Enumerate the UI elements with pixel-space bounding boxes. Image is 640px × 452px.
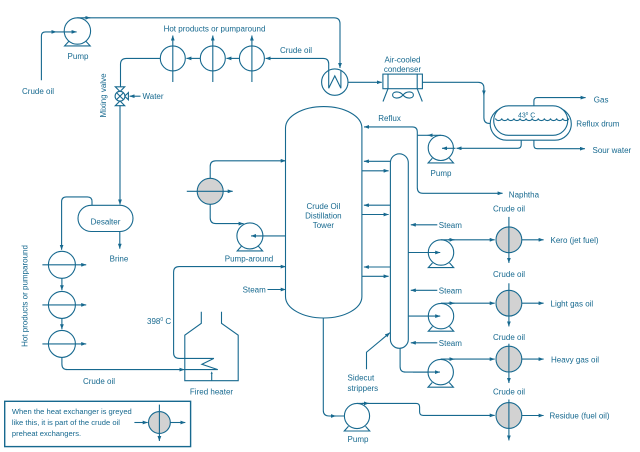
greyed crude preheat exchanger E11 (residue cooler) [496, 403, 522, 429]
wire: condenser outlet to reflux drum [422, 82, 491, 123]
wire: sour water outlet from drum [534, 140, 585, 149]
svg-text:Naphtha: Naphtha [509, 190, 540, 199]
svg-text:Pump-around: Pump-around [225, 254, 273, 263]
wire: crude through E11 [508, 400, 510, 441]
svg-text:Desalter: Desalter [91, 218, 121, 227]
wire: crude from E3 to E2 [226, 57, 239, 59]
wire: naphtha product line [417, 135, 502, 193]
svg-text:Pump: Pump [431, 169, 452, 178]
svg-text:Crude Oil: Crude Oil [307, 202, 341, 211]
legend greyed exchanger [149, 412, 171, 434]
wire: desalter outlet to lower exchanger train [62, 197, 92, 250]
svg-text:strippers: strippers [348, 384, 379, 393]
wire: heavy gas oil product [522, 358, 544, 360]
wire: crude E7 to fired heater [62, 357, 185, 369]
wire: reflux line label area / tower-stripper return 1 [364, 160, 391, 162]
wire: brine outlet [119, 232, 121, 249]
wire: heated crude 398C from heater to tower [174, 267, 286, 359]
svg-text:Steam: Steam [243, 285, 266, 294]
wire: tower bottoms to residue pump [323, 318, 354, 416]
pump P1 crude feed pump (top-left) [64, 18, 90, 46]
wire: reflux return to tower [364, 127, 417, 135]
wire: crude through E8 [508, 217, 510, 263]
wire: stripper bottoms to HGO pump P7 [400, 348, 440, 372]
svg-text:Crude oil: Crude oil [493, 333, 525, 342]
wire: hot products line through E5 [42, 264, 86, 266]
burner arrow [211, 373, 213, 381]
wire: reflux pump discharge to header [428, 134, 441, 136]
wire: LGO pump discharge to cooler [441, 302, 495, 304]
svg-text:Water: Water [143, 92, 164, 101]
heat exchanger E6 (lower train) [48, 291, 75, 318]
svg-text:Reflux drum: Reflux drum [576, 119, 619, 128]
svg-text:Mixing valve: Mixing valve [99, 73, 108, 118]
heat exchanger E3 (top train) [239, 46, 264, 71]
wire: crude E5 to E6 [61, 278, 63, 290]
pump P6 light gas oil pump [408, 303, 453, 331]
svg-text:Residue (fuel oil): Residue (fuel oil) [550, 412, 610, 421]
wire: tower-stripper return 2 [364, 204, 391, 206]
svg-text:Gas: Gas [594, 96, 609, 105]
wire: pumparound pump to E4 [210, 204, 243, 223]
wire: hot products line through E7 [42, 343, 86, 345]
svg-text:Fired heater: Fired heater [190, 388, 233, 397]
svg-text:Crude oil: Crude oil [493, 204, 525, 213]
svg-text:condenser: condenser [384, 65, 422, 74]
air-cooled condenser ACC1 [383, 74, 423, 101]
svg-text:Hot products or pumparound: Hot products or pumparound [21, 245, 30, 347]
overhead vapor exchanger E0 (circle with zigzag) [322, 69, 348, 95]
svg-text:Heavy gas oil: Heavy gas oil [551, 355, 599, 364]
svg-text:Reflux: Reflux [378, 114, 401, 123]
wire: tower draw 3 to stripper [362, 275, 389, 277]
svg-text:Air-cooled: Air-cooled [384, 56, 420, 65]
wire: tower-stripper return 3 [364, 266, 391, 268]
wire: crude from E2 to E1 [186, 57, 200, 59]
pump P3 pumparound pump [237, 223, 263, 251]
tower T1 crude oil distillation tower [286, 107, 362, 318]
svg-text:Hot products or pumparound: Hot products or pumparound [164, 25, 266, 34]
wire: feed into pump P1 with arrows [52, 31, 57, 33]
svg-text:Crude oil: Crude oil [83, 377, 115, 386]
svg-text:Crude oil: Crude oil [22, 87, 54, 96]
svg-text:preheat exchangers.: preheat exchangers. [12, 429, 81, 438]
greyed crude preheat exchanger E10 (HGO cooler) [496, 346, 522, 372]
wire: HGO pump discharge to cooler [441, 358, 495, 360]
wire: hot products line through E2 [212, 36, 214, 83]
wire: steam 3 into stripper [411, 342, 438, 344]
sidecut stripper column S1 [390, 154, 408, 348]
wire: light gas oil product [522, 302, 544, 304]
wire: tower draw 2 to stripper [362, 214, 389, 216]
pump P5 kero pump [408, 240, 453, 268]
wire: drum bottoms to reflux pump [457, 140, 522, 148]
wire: residue product [522, 415, 544, 417]
pump P7 heavy gas oil pump [413, 359, 453, 387]
svg-text:Steam: Steam [439, 339, 462, 348]
wire: kero pump discharge to cooler [441, 239, 495, 241]
svg-text:Light gas oil: Light gas oil [551, 299, 594, 308]
wire: pumparound return E4 to tower [210, 161, 286, 179]
svg-text:Distillation: Distillation [305, 211, 341, 220]
svg-text:Kero (jet fuel): Kero (jet fuel) [551, 236, 599, 245]
svg-text:Sidecut: Sidecut [348, 374, 375, 383]
wire: crude through E9 [508, 283, 510, 326]
svg-text:Pump: Pump [348, 435, 369, 444]
pump P4 residue pump [344, 403, 369, 431]
wire: steam 2 into stripper [411, 289, 438, 291]
wire: E0 to air-cooled condenser [348, 81, 382, 83]
liquid level wavy line in drum [496, 118, 569, 120]
heat exchanger E7 (lower train) [48, 330, 75, 357]
wire: crude oil stub through E4 [187, 190, 233, 192]
wire: mixing valve to desalter [119, 106, 121, 205]
wire: residue pump discharge to cooler [357, 403, 495, 415]
wire: tower draw to pumparound pump [251, 235, 286, 237]
wire: hot products line through E6 [42, 304, 86, 306]
svg-text:3980 C: 3980 C [147, 317, 171, 326]
svg-text:Crude oil: Crude oil [280, 46, 312, 55]
heat exchanger E2 (top train) [200, 46, 225, 71]
callout leader: sidecut strippers [367, 333, 390, 370]
svg-text:Tower: Tower [313, 221, 335, 230]
wire: steam 1 into stripper [411, 224, 438, 226]
greyed pumparound heat exchanger E4 [197, 178, 223, 204]
wire: hot products line through E3 [251, 36, 253, 83]
wire: crude from E1 to mixing valve [121, 58, 161, 86]
wire: kero product [522, 239, 544, 241]
svg-text:Crude oil: Crude oil [493, 270, 525, 279]
wire: crude from overhead exchanger E0 into E3 [266, 58, 329, 70]
wire: pump P1 discharge to overhead exchanger E0 [77, 18, 340, 68]
wire: tower draw 1 to stripper [362, 170, 389, 172]
wire: steam into tower [268, 289, 286, 291]
heat exchanger E1 (top train) [160, 46, 185, 71]
svg-text:Steam: Steam [439, 221, 462, 230]
fired heater H1 [185, 312, 238, 381]
heat exchanger E5 (lower train) [48, 251, 75, 278]
mixing valve V1 [115, 87, 128, 106]
wire: crude E6 to E7 [61, 318, 63, 329]
wire: water into mixing valve [130, 95, 141, 97]
greyed crude preheat exchanger E8 (kero cooler) [496, 227, 522, 253]
legend box [5, 401, 191, 446]
pump P2 reflux pump [428, 135, 453, 163]
svg-text:Steam: Steam [439, 287, 462, 296]
svg-text:like this, it is part of the c: like this, it is part of the crude oil [12, 418, 120, 427]
wire: into reflux pump center [442, 147, 456, 149]
wire: crude oil feed riser [41, 32, 53, 80]
svg-text:Pump: Pump [68, 52, 89, 61]
svg-text:Crude oil: Crude oil [493, 387, 525, 396]
svg-text:Sour water: Sour water [593, 146, 632, 155]
svg-text:When the heat exchanger is gre: When the heat exchanger is greyed [12, 407, 132, 416]
desalter DS1 [78, 205, 133, 231]
svg-text:Brine: Brine [110, 255, 129, 264]
greyed crude preheat exchanger E9 (LGO cooler) [496, 290, 522, 316]
wire: hot products line through E1 [172, 36, 174, 83]
heater coil [185, 358, 218, 369]
wire: crude through E10 [508, 344, 510, 383]
reflux drum D1 [490, 106, 571, 140]
wire: gas outlet from drum [534, 98, 586, 106]
